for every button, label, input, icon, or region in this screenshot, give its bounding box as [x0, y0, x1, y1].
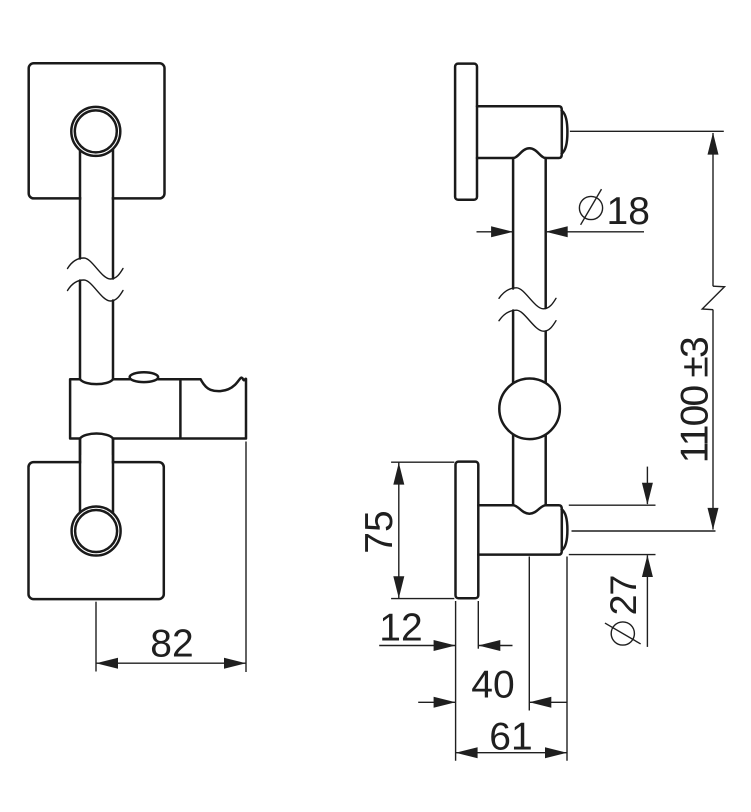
75 dimension line [398, 462, 400, 598]
rail mid segment (side) [513, 311, 546, 384]
dia18 dimension line right part [547, 231, 644, 233]
75 extension line top [391, 461, 454, 463]
top mounting escutcheon circle inner [75, 110, 117, 152]
extension line arm end down [566, 557, 568, 761]
top wall flange (side) [455, 64, 477, 200]
arrowhead 75 top (up) [393, 463, 404, 485]
dia18 dimension line left part [477, 231, 513, 233]
svg-text:82: 82 [150, 623, 193, 666]
extension line rail centre down [528, 557, 530, 711]
wire rail right edge lower [112, 439, 115, 516]
svg-text:75: 75 [358, 510, 401, 553]
wire rail left edge lower [79, 439, 82, 516]
bottom wall plate (front) [29, 462, 164, 599]
extension line flange right down [477, 601, 479, 649]
wire rail left edge upper [79, 140, 82, 380]
slider knob circle (side) [499, 379, 560, 440]
slider block with handset holder (front) [70, 378, 246, 439]
rail upper segment (side) [513, 158, 546, 308]
friction button ellipse on slider [130, 372, 158, 382]
diameter symbol circle for 18 [579, 196, 602, 219]
arrowhead 1100 bottom (down) [708, 508, 719, 530]
break wave 1 (front) [68, 258, 124, 279]
arrowhead dia27 lower (up) [642, 555, 653, 577]
svg-text:12: 12 [379, 607, 422, 650]
extension line from bottom plate centre [95, 602, 97, 672]
arrowhead 40 left (points right) [434, 697, 456, 708]
arrowhead dia27 upper (down) [642, 483, 653, 505]
1100 break symbol [702, 286, 724, 310]
extension line from bottom arm end [572, 530, 716, 532]
break wave 1 (side) [499, 288, 556, 309]
rail lower segment fill (front) [81, 438, 111, 516]
75 extension line bottom [391, 598, 454, 600]
svg-text:27: 27 [602, 576, 644, 616]
extension line flange left down [455, 601, 457, 761]
rail through bottom plate [81, 455, 111, 516]
arrowhead dia18 left (points right at rail) [491, 226, 513, 237]
1100 dimension line lower [712, 310, 714, 530]
bottom escutcheon circle inner [75, 510, 117, 552]
break wave 2 (side) [499, 310, 556, 331]
diameter symbol circle for 27 (rotated group) [602, 576, 644, 646]
dimension line 82 [96, 662, 246, 664]
12 dimension line left tail [379, 645, 455, 647]
svg-text:61: 61 [489, 715, 532, 758]
arrowhead 1100 top (up) [708, 133, 719, 155]
40 dimension line left tail [418, 701, 455, 703]
arrowhead 12 right (points left) [478, 640, 500, 651]
dia27 dimension line lower [646, 555, 648, 647]
rail lower segment (side) [513, 430, 546, 505]
bottom mount arm (side) [478, 505, 562, 554]
dia27 extension line top [569, 504, 656, 506]
svg-text:1100 ±3: 1100 ±3 [674, 338, 717, 463]
top wall plate (front) [29, 63, 165, 198]
arrowhead 40 right (points left) [529, 697, 551, 708]
arrowhead 82 right [224, 658, 246, 669]
break wave 2 (front) [68, 280, 124, 301]
bottom arm end dome [562, 509, 568, 550]
arrowhead 61 right (points right) [545, 747, 567, 758]
top mount arm (side) [477, 106, 562, 158]
arrowhead 82 left [96, 658, 118, 669]
top mounting escutcheon circle outer [71, 107, 120, 156]
rail upper segment (front) [81, 140, 111, 250]
61 dimension line [456, 752, 567, 754]
slider divider line [179, 379, 182, 438]
dia27 extension line bottom [569, 554, 656, 556]
extension line from top arm end [570, 130, 724, 132]
bottom escutcheon circle outer [72, 507, 121, 556]
arrowhead 75 bottom (down) [393, 576, 404, 598]
svg-text:40: 40 [471, 664, 514, 707]
svg-text:18: 18 [607, 190, 650, 233]
extension line from holder right edge [245, 442, 247, 673]
arrowhead dia18 right (points left at rail) [546, 226, 568, 237]
arrowhead 12 left (points right) [434, 640, 456, 651]
12 dimension line right tail [479, 645, 513, 647]
dia27 dimension line upper [646, 467, 648, 504]
bottom wall flange (side) [456, 462, 479, 599]
1100 dimension line upper [712, 133, 714, 286]
diameter symbol slash for 18 [581, 189, 602, 225]
wire rail edges into bottom plate [80, 439, 113, 515]
wire rail right edge upper [112, 140, 115, 380]
arrowhead 61 left (points left) [456, 747, 478, 758]
top arm end dome [562, 111, 568, 154]
40 dimension line right tail [530, 701, 568, 703]
diameter symbol slash for 27 [605, 623, 641, 644]
